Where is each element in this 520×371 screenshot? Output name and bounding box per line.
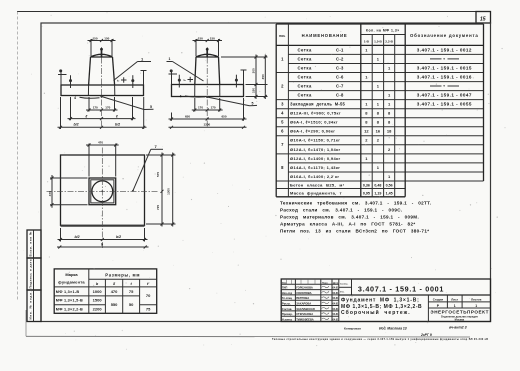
svg-text:1: 1 xyxy=(388,93,391,98)
svg-text:Утв.: Утв. xyxy=(340,292,345,294)
svg-text:С-2: С-2 xyxy=(336,56,344,61)
svg-text:1000: 1000 xyxy=(93,289,103,294)
stamp box 1 xyxy=(27,230,41,258)
svg-text:550: 550 xyxy=(111,302,118,307)
svg-text:Сетка: Сетка xyxy=(298,56,312,61)
sheet number box "15" xyxy=(476,12,491,24)
svg-text:Листов: Листов xyxy=(471,297,482,301)
svg-text:1: 1 xyxy=(388,174,391,179)
column body xyxy=(88,57,114,96)
svg-text:04.81: 04.81 xyxy=(333,308,339,311)
bottom annotations xyxy=(272,325,488,341)
slab xyxy=(61,85,144,96)
svg-text:1: 1 xyxy=(169,57,171,61)
svg-text:ГИП: ГИП xyxy=(282,286,287,290)
title block xyxy=(281,279,490,322)
svg-text:Взам. инв №: Взам. инв № xyxy=(29,231,33,257)
specification table xyxy=(276,24,483,197)
svg-text:16: 16 xyxy=(376,129,381,134)
svg-text:1: 1 xyxy=(377,165,380,170)
stamp box 2 xyxy=(27,258,41,290)
svg-text:ЗАХАРОВА: ЗАХАРОВА xyxy=(296,301,311,305)
signature grid xyxy=(281,279,339,322)
svg-text:b: b xyxy=(101,242,104,246)
slab corner marks xyxy=(169,69,247,84)
svg-text:Гл.спец: Гл.спец xyxy=(282,296,292,300)
svg-text:Подп.: Подп. xyxy=(322,282,329,284)
svg-text:Сетка: Сетка xyxy=(298,47,312,52)
svg-text:Фундамент МФ 1,3×1-В;: Фундамент МФ 1,3×1-В; xyxy=(341,298,420,304)
svg-text:Н.контр: Н.контр xyxy=(282,317,293,321)
svg-text:Ø16А-I, ℓ=1400; 2,2 кг: Ø16А-I, ℓ=1400; 2,2 кг xyxy=(290,174,339,179)
svg-text:Сборочный чертеж.: Сборочный чертеж. xyxy=(341,309,411,316)
svg-text:300: 300 xyxy=(252,68,256,73)
svg-text:Ø12А-I, ℓ=1400; 0,94кг: Ø12А-I, ℓ=1400; 0,94кг xyxy=(290,156,341,161)
svg-text:150: 150 xyxy=(198,36,203,40)
svg-text:Закладная деталь М-55: Закладная деталь М-55 xyxy=(290,102,345,107)
svg-text:3.407.1 - 159.1 - 0015: 3.407.1 - 159.1 - 0015 xyxy=(417,65,472,70)
dim 650+650 xyxy=(169,98,247,121)
stamp box 3 xyxy=(27,290,41,322)
svg-text:ЭНЕРГОСЕТЬПРОЕКТ: ЭНЕРГОСЕТЬПРОЕКТ xyxy=(430,310,488,315)
svg-text:8: 8 xyxy=(281,165,284,170)
plan view xyxy=(47,141,176,250)
column cap xyxy=(196,48,219,57)
leader 5 xyxy=(102,97,154,110)
svg-text:Технические требования см.: Технические требования см. 3.407.1 - 159… xyxy=(280,200,431,206)
svg-text:Лист: Лист xyxy=(451,297,458,301)
svg-text:04.81: 04.81 xyxy=(333,318,339,321)
svg-text:04.81: 04.81 xyxy=(333,292,339,295)
svg-text:3: 3 xyxy=(281,102,284,107)
title block outline xyxy=(281,279,490,322)
svg-text:3.407.1 - 159.1 - 0016: 3.407.1 - 159.1 - 0016 xyxy=(417,74,472,79)
svg-text:МФ 1,3×1,5-В; МФ 1,3×2,2-В: МФ 1,3×1,5-В; МФ 1,3×2,2-В xyxy=(341,304,422,310)
svg-text:1,45: 1,45 xyxy=(386,192,393,196)
svg-text:Рук.гр.: Рук.гр. xyxy=(282,301,291,305)
anchor ticks on slab xyxy=(69,75,134,88)
svg-text:1: 1 xyxy=(365,47,368,52)
svg-text:725: 725 xyxy=(156,205,160,210)
svg-text:2: 2 xyxy=(388,147,391,152)
svg-text:Сетка: Сетка xyxy=(298,84,312,89)
svg-text:Сетка: Сетка xyxy=(298,74,312,79)
svg-text:04.81: 04.81 xyxy=(333,287,339,290)
spec names xyxy=(290,47,345,195)
svg-text:470: 470 xyxy=(111,289,118,294)
svg-text:5: 5 xyxy=(150,105,152,109)
spec document refs xyxy=(417,47,472,106)
svg-text:Копировал: Копировал xyxy=(344,327,361,331)
svg-text:Дата: Дата xyxy=(333,282,339,284)
technical notes xyxy=(280,200,431,234)
dim b/2+b/2 bottom xyxy=(58,228,148,242)
svg-text:1: 1 xyxy=(377,102,380,107)
svg-text:Состав.: Состав. xyxy=(282,307,293,311)
centerline xyxy=(101,47,103,128)
svg-text:1: 1 xyxy=(388,102,391,107)
left stamp boxes xyxy=(27,230,41,322)
svg-text:фундамента: фундамента xyxy=(58,279,85,284)
dim 1300 xyxy=(169,123,247,129)
svg-text:0,36: 0,36 xyxy=(363,183,370,187)
dim 470 top xyxy=(86,141,119,177)
svg-text:Масса фундамента, т: Масса фундамента, т xyxy=(290,191,342,196)
svg-text:150: 150 xyxy=(104,36,109,40)
svg-text:вч-ант2 3: вч-ант2 3 xyxy=(449,325,467,329)
svg-text:2,2-В: 2,2-В xyxy=(385,40,393,44)
spec poz numbers xyxy=(281,56,284,169)
centerlines xyxy=(47,148,159,250)
svg-text:Ø6А-I, ℓ=1510; 0,34кг: Ø6А-I, ℓ=1510; 0,34кг xyxy=(290,120,338,125)
svg-text:2: 2 xyxy=(365,138,368,143)
svg-text:1,5-В: 1,5-В xyxy=(374,40,382,44)
svg-text:С-7: С-7 xyxy=(336,84,344,89)
socket square xyxy=(89,178,116,205)
slab outline xyxy=(61,155,145,226)
svg-text:С-8: С-8 xyxy=(336,93,344,98)
svg-text:1: 1 xyxy=(475,304,477,308)
svg-text:170: 170 xyxy=(198,106,203,110)
height dims right xyxy=(221,55,268,100)
svg-text:04.81: 04.81 xyxy=(333,297,339,300)
svg-text:ТИМОФЕЕВА: ТИМОФЕЕВА xyxy=(296,317,314,321)
svg-text:1: 1 xyxy=(365,102,368,107)
svg-text:Исд. Маслова 13: Исд. Маслова 13 xyxy=(379,327,407,331)
svg-text:ℓ: ℓ xyxy=(116,114,118,118)
centerline xyxy=(206,47,208,128)
dim b bottom xyxy=(57,242,149,248)
node: bottom center dot xyxy=(100,95,102,97)
spec table grid xyxy=(276,24,483,197)
svg-text:70: 70 xyxy=(146,293,151,298)
view 1 (elevation, variable width) xyxy=(58,36,154,129)
dim 150+150 top xyxy=(88,36,116,56)
svg-text:1: 1 xyxy=(454,304,456,308)
svg-text:Сетка: Сетка xyxy=(298,93,312,98)
svg-text:«: « xyxy=(443,57,445,61)
handwritten mark xyxy=(420,333,432,337)
slab corner marks xyxy=(58,69,147,85)
svg-text:Арматура класса А-III, А-I: Арматура класса А-III, А-I по ГОСТ 5781-… xyxy=(280,222,416,227)
leader 7 plan xyxy=(132,144,163,192)
svg-text:2: 2 xyxy=(377,138,380,143)
doc number xyxy=(339,279,444,295)
svg-text:1-В: 1-В xyxy=(364,40,370,44)
svg-text:b/2: b/2 xyxy=(115,123,120,127)
svg-text:МФ 1,3×1-В: МФ 1,3×1-В xyxy=(56,290,80,294)
svg-text:t: t xyxy=(131,282,133,286)
drawing border frame xyxy=(41,23,491,322)
dim 150+150 top xyxy=(193,36,223,56)
label 4 xyxy=(74,96,100,100)
svg-text:Ø12А-III, ℓ=900; 0,75кг: Ø12А-III, ℓ=900; 0,75кг xyxy=(290,111,341,116)
svg-text:ПЕТРОВА: ПЕТРОВА xyxy=(296,296,309,300)
label 4 xyxy=(180,95,206,99)
svg-text:Размеры, мм: Размеры, мм xyxy=(105,273,140,278)
svg-text:1: 1 xyxy=(281,56,284,61)
svg-text:3.407.1 - 159.1 - 0012: 3.407.1 - 159.1 - 0012 xyxy=(417,47,472,52)
node: bottom center dot xyxy=(206,96,208,98)
svg-text:3.407.1 - 159.1 - 0001: 3.407.1 - 159.1 - 0001 xyxy=(358,284,444,293)
svg-text:Сетка: Сетка xyxy=(298,65,312,70)
svg-text:4: 4 xyxy=(180,95,182,99)
svg-text:650: 650 xyxy=(222,114,227,118)
svg-text:8: 8 xyxy=(388,111,391,116)
svg-text:t₀: t₀ xyxy=(117,78,120,82)
svg-text:1,19: 1,19 xyxy=(374,192,381,196)
svg-text:Ø12А-I, ℓ=1470; 1,04кг: Ø12А-I, ℓ=1470; 1,04кг xyxy=(290,147,341,152)
column cap xyxy=(91,48,113,57)
svg-text:t′: t′ xyxy=(147,282,150,286)
svg-text:450: 450 xyxy=(261,74,265,79)
svg-text:Ø10А-I, ℓ=1150; 0,71кг: Ø10А-I, ℓ=1150; 0,71кг xyxy=(290,138,340,143)
svg-text:1: 1 xyxy=(365,74,368,79)
svg-text:Москва: Москва xyxy=(455,318,465,322)
svg-text:0,95: 0,95 xyxy=(363,192,370,196)
organization xyxy=(430,310,488,322)
svg-text:6: 6 xyxy=(281,129,284,134)
svg-text:04.81: 04.81 xyxy=(333,302,339,305)
sizes table xyxy=(54,269,157,313)
svg-text:75: 75 xyxy=(146,306,151,311)
svg-text:04.81: 04.81 xyxy=(333,313,339,316)
svg-text:Провер.: Провер. xyxy=(282,312,293,316)
svg-text:ЗАСЛАВСКАЯ: ЗАСЛАВСКАЯ xyxy=(296,307,315,311)
socket circle xyxy=(92,181,113,202)
view 2 (elevation, 1300 width) xyxy=(167,36,268,128)
svg-text:Бетон класса В25, м³: Бетон класса В25, м³ xyxy=(290,182,345,187)
svg-text:170: 170 xyxy=(105,106,110,110)
dim 470 left xyxy=(48,175,88,208)
dim 170+170 xyxy=(86,97,118,112)
signature texts xyxy=(282,286,339,322)
svg-text:1500: 1500 xyxy=(93,298,103,303)
svg-text:2зРГ 9: 2зРГ 9 xyxy=(420,333,432,337)
svg-text:С-6: С-6 xyxy=(336,74,344,79)
t0 mark xyxy=(184,77,194,82)
svg-text:4: 4 xyxy=(74,96,76,100)
svg-text:Р: Р xyxy=(437,304,440,308)
svg-text:Стадия: Стадия xyxy=(433,297,444,301)
svg-text:75: 75 xyxy=(129,289,134,294)
dim b/2+b/2 xyxy=(58,97,147,129)
svg-text:b/2: b/2 xyxy=(74,123,79,127)
svg-text:7: 7 xyxy=(281,142,284,147)
svg-text:170: 170 xyxy=(211,106,216,110)
svg-text:Кол. на МФ 1,3×: Кол. на МФ 1,3× xyxy=(366,29,400,33)
dim l+l xyxy=(68,97,136,120)
svg-text:t₀: t₀ xyxy=(184,78,187,82)
svg-text:3.407.1 - 159.1 - 0055: 3.407.1 - 159.1 - 0055 xyxy=(417,102,472,107)
svg-text:Подпись и дата: Подпись и дата xyxy=(29,259,33,288)
svg-text:5: 5 xyxy=(252,101,254,105)
dim 170+170 xyxy=(192,98,223,112)
spec quantities xyxy=(363,47,393,195)
svg-text:Изм: Изм xyxy=(282,282,287,284)
stage cells xyxy=(428,295,490,322)
svg-text:12: 12 xyxy=(364,129,369,134)
svg-text:8: 8 xyxy=(377,111,380,116)
svg-text:Нач.отд: Нач.отд xyxy=(282,291,293,295)
svg-text:1: 1 xyxy=(377,84,380,89)
svg-text:18: 18 xyxy=(387,129,392,134)
svg-text:8: 8 xyxy=(365,111,368,116)
svg-text:Инв. № подл.: Инв. № подл. xyxy=(29,291,33,319)
svg-text:150: 150 xyxy=(252,88,256,93)
t0 mark xyxy=(117,77,127,82)
svg-text:8: 8 xyxy=(365,120,368,125)
spec table header xyxy=(279,29,478,44)
svg-text:150: 150 xyxy=(93,36,98,40)
svg-text:15: 15 xyxy=(480,17,486,23)
svg-text:650: 650 xyxy=(185,114,190,118)
svg-text:Расход материалов см. 3.407: Расход материалов см. 3.407.1 - 159.1 - … xyxy=(280,215,419,220)
slab xyxy=(172,85,244,97)
svg-text:50: 50 xyxy=(129,302,134,307)
svg-text:поз.: поз. xyxy=(279,34,285,38)
svg-text:Петли поз. 13 из стали ВСт: Петли поз. 13 из стали ВСт3сп2 по ГОСТ 3… xyxy=(280,229,429,234)
svg-text:1: 1 xyxy=(365,156,368,161)
svg-text:b/2: b/2 xyxy=(75,235,80,239)
svg-text:Марка: Марка xyxy=(65,272,78,277)
svg-text:δ: δ xyxy=(113,282,116,286)
paper left edge xyxy=(18,12,27,337)
svg-text:ℓ: ℓ xyxy=(86,114,88,118)
svg-text:1300: 1300 xyxy=(166,188,170,195)
leader 7 xyxy=(114,57,152,81)
svg-text:470: 470 xyxy=(48,191,52,196)
svg-text:b: b xyxy=(96,282,99,286)
svg-text:«: « xyxy=(443,84,445,88)
svg-text:СОКОЛОВА: СОКОЛОВА xyxy=(296,291,311,295)
subject text xyxy=(341,298,422,317)
svg-text:СТЕПАНОВА: СТЕПАНОВА xyxy=(296,312,313,316)
svg-text:Типовые строительные конструкц: Типовые строительные конструкции здании … xyxy=(272,338,488,341)
svg-text:С-3: С-3 xyxy=(336,65,344,70)
leader 5 xyxy=(208,97,257,106)
svg-text:8: 8 xyxy=(377,120,380,125)
svg-text:Ø6А-I, ℓ=290; 0,06кг: Ø6А-I, ℓ=290; 0,06кг xyxy=(290,129,335,134)
microtext stamp line xyxy=(272,338,488,341)
svg-text:3.407.1 - 159.1 - 0047: 3.407.1 - 159.1 - 0047 xyxy=(417,93,472,98)
paper top edge line xyxy=(17,11,476,13)
svg-text:1: 1 xyxy=(377,56,380,61)
paper bottom edge line xyxy=(26,335,470,338)
svg-text:1300: 1300 xyxy=(204,123,211,127)
svg-text:1: 1 xyxy=(388,65,391,70)
svg-text:Ø14А-I, ℓ=1170; 1,43кг: Ø14А-I, ℓ=1170; 1,43кг xyxy=(290,165,340,170)
svg-text:4: 4 xyxy=(281,111,284,116)
svg-text:575: 575 xyxy=(156,172,160,177)
svg-text:С-1: С-1 xyxy=(336,47,344,52)
anchor ticks on slab xyxy=(178,75,238,88)
svg-text:0,48: 0,48 xyxy=(374,183,381,187)
leader 1 xyxy=(167,57,204,81)
svg-text:Соглас.: Соглас. xyxy=(340,284,349,286)
svg-text:150: 150 xyxy=(210,36,215,40)
svg-text:Расход стали см. 3.407.1 -: Расход стали см. 3.407.1 - 159.1 - 009С. xyxy=(280,208,403,213)
svg-text:7: 7 xyxy=(155,144,158,149)
svg-text:МФ 1,3×2,2-В: МФ 1,3×2,2-В xyxy=(56,307,83,311)
svg-text:5: 5 xyxy=(281,120,284,125)
svg-text:1: 1 xyxy=(141,57,144,62)
column body xyxy=(195,57,220,97)
svg-text:МФ 1,3×1,5-В: МФ 1,3×1,5-В xyxy=(56,299,83,303)
svg-text:Обозначение документа: Обозначение документа xyxy=(410,33,479,38)
svg-text:ГОРБУНОВА: ГОРБУНОВА xyxy=(296,286,313,290)
svg-text:b/2: b/2 xyxy=(116,235,121,239)
svg-text:2: 2 xyxy=(281,84,284,89)
svg-text:2200: 2200 xyxy=(93,306,103,311)
svg-text:8: 8 xyxy=(388,120,391,125)
dims right side xyxy=(146,153,176,227)
svg-text:НАИМЕНОВАНИЕ: НАИМЕНОВАНИЕ xyxy=(302,33,348,38)
svg-text:470: 470 xyxy=(98,141,103,145)
kopiroval line xyxy=(344,325,467,330)
